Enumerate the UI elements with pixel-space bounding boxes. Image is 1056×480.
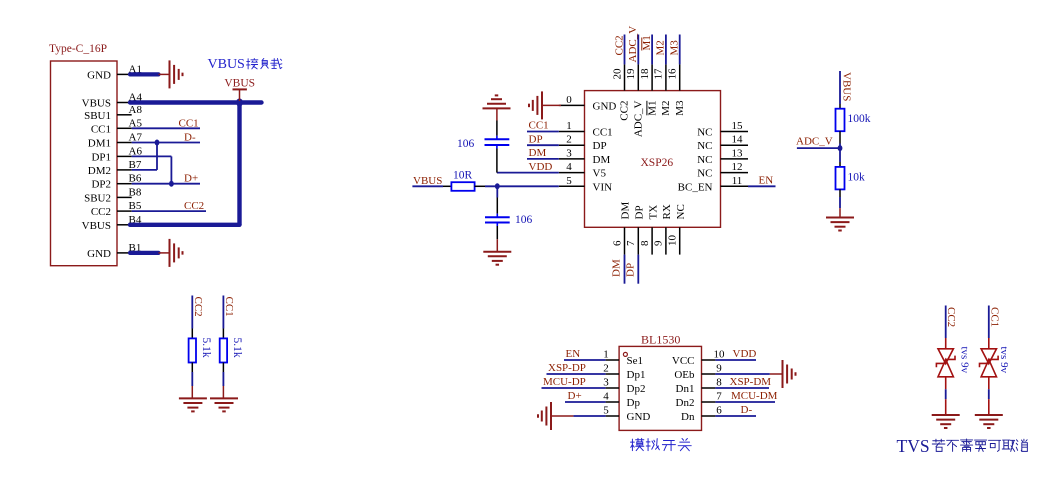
ground lead U2 pin9 <box>770 373 782 375</box>
TVS lead bottom <box>945 377 947 390</box>
svg-text:M2: M2 <box>655 40 667 55</box>
pin A8 SBU1 of J1 <box>117 114 132 116</box>
svg-text:1: 1 <box>566 120 572 132</box>
cap lead below C1 <box>496 149 498 173</box>
svg-text:3: 3 <box>603 377 609 389</box>
pin 2 DP of U1 <box>559 144 585 146</box>
ground at A1 <box>169 60 171 88</box>
svg-text:M3: M3 <box>669 40 681 56</box>
svg-text:XSP26: XSP26 <box>641 157 674 169</box>
ground above C1 <box>483 107 511 109</box>
svg-text:NC: NC <box>697 140 712 152</box>
wire EN to U2 pin1 <box>564 359 606 361</box>
pin 7 DP of U1 (bottom) <box>637 227 639 254</box>
svg-text:BC_EN: BC_EN <box>678 181 713 193</box>
ground lead TVS <box>945 399 947 415</box>
svg-text:GND: GND <box>593 100 617 112</box>
svg-text:VBUS: VBUS <box>413 175 442 187</box>
svg-text:DP: DP <box>593 140 607 152</box>
wire DM below U1 <box>624 255 626 284</box>
pin1 indicator dot U2 <box>623 352 627 356</box>
cap C2 blue stub below <box>496 223 498 227</box>
pin A4 VBUS of J1 <box>117 102 132 104</box>
TVS lead top <box>945 338 947 349</box>
wire DM to U1 <box>527 158 559 160</box>
pin 3 Dp2 of U2 <box>606 387 620 389</box>
pin 2 Dp1 of U2 <box>606 373 620 375</box>
wire VBUS to pin B4 (thick) <box>130 223 240 227</box>
svg-text:7: 7 <box>625 240 637 246</box>
svg-text:CC1: CC1 <box>988 307 1000 327</box>
svg-text:OEb: OEb <box>674 369 695 381</box>
overline for net label M1 <box>641 38 643 51</box>
svg-text:19: 19 <box>625 68 637 80</box>
svg-text:M1: M1 <box>646 101 658 116</box>
svg-text:MCU-DM: MCU-DM <box>731 390 778 402</box>
ground below TVS CC1 <box>975 414 1003 416</box>
cap C2 blue stub above <box>496 214 498 218</box>
svg-text:M3: M3 <box>674 100 686 116</box>
wire VDD from U2 pin10 <box>715 359 756 361</box>
svg-text:106: 106 <box>515 214 533 226</box>
pin 0 GND of U1 <box>559 104 585 106</box>
pin A5 CC1 of J1 <box>117 127 132 129</box>
svg-text:5: 5 <box>603 405 609 417</box>
resistor lead bottom 10k <box>839 189 841 197</box>
svg-text:M2: M2 <box>660 101 672 116</box>
wire to ground (divider) <box>839 197 841 208</box>
svg-text:CC1: CC1 <box>91 123 111 135</box>
svg-text:TVS: TVS <box>897 436 930 456</box>
wire CC1 TVS <box>988 306 990 339</box>
ground below 10k <box>826 217 854 219</box>
wire D- from pin A7 <box>132 142 200 144</box>
svg-text:10R: 10R <box>453 169 473 181</box>
ground at U2 pin9 <box>782 360 784 388</box>
svg-text:VIN: VIN <box>593 181 613 193</box>
ground lead pin0 <box>543 104 561 106</box>
svg-text:CC2: CC2 <box>613 35 625 55</box>
ground under CC1 resistor <box>210 397 238 399</box>
wire from U2 pin9 <box>715 373 769 375</box>
resistor 5.1k lead top <box>191 329 193 339</box>
svg-text:Se1: Se1 <box>627 355 644 367</box>
junction on D- <box>155 140 160 146</box>
ground lead above C1 <box>496 108 498 120</box>
svg-text:CC1: CC1 <box>179 117 199 129</box>
svg-text:12: 12 <box>732 161 743 173</box>
svg-text:NC: NC <box>697 154 712 166</box>
TVS diode (CC1) tvs 9v <box>981 349 996 364</box>
svg-text:NC: NC <box>697 168 712 180</box>
wire D+ to U2 pin4 <box>565 401 606 403</box>
svg-text:D-: D- <box>184 131 196 143</box>
pin 14 NC of U1 <box>721 144 749 146</box>
svg-text:M1: M1 <box>641 35 653 50</box>
wire TVS to ground <box>988 389 990 399</box>
resistor lead top 100k <box>839 104 841 109</box>
svg-text:106: 106 <box>457 138 475 150</box>
pin 9 RX of U1 (bottom) <box>665 227 667 254</box>
pin 15 NC of U1 <box>721 131 749 133</box>
pin B8 SBU2 of J1 <box>117 196 132 198</box>
pin 12 NC of U1 <box>721 172 749 174</box>
svg-text:DP: DP <box>634 205 646 219</box>
wire DM1-DM2 vertical <box>156 143 158 170</box>
wire from pin B7 <box>132 169 157 171</box>
ground below C2 <box>483 251 511 253</box>
pin A7 DM1 of J1 <box>117 142 132 144</box>
svg-text:DP1: DP1 <box>91 151 111 163</box>
ground under CC2 resistor <box>179 397 207 399</box>
ground lead TVS <box>988 399 990 415</box>
capacitor C2 106 plates <box>485 216 510 218</box>
pin 10 VCC of U2 <box>702 359 716 361</box>
pin 13 NC of U1 <box>721 158 749 160</box>
svg-text:DM: DM <box>529 147 547 159</box>
cap lead above C1 <box>496 121 498 136</box>
pin A1 GND of J1 <box>117 73 132 75</box>
capacitor C1 106 plates <box>485 144 510 146</box>
wire to ground <box>191 372 193 386</box>
svg-text:Dp1: Dp1 <box>627 369 646 381</box>
wire CC1 to resistor <box>222 296 224 329</box>
svg-text:3: 3 <box>566 147 572 159</box>
svg-text:10: 10 <box>667 235 679 247</box>
ground lead <box>222 386 224 398</box>
svg-text:XSP-DM: XSP-DM <box>730 376 772 388</box>
pin B1 GND of J1 <box>117 252 132 254</box>
IC U2 BL1530 body <box>619 346 701 430</box>
svg-text:6: 6 <box>716 405 722 417</box>
pin 16 M3 of U1 (top) <box>679 64 681 90</box>
wire to ground <box>222 372 224 386</box>
resistor lead top 10k <box>839 162 841 167</box>
ground below TVS CC2 <box>932 414 960 416</box>
resistor lead left 10R <box>443 185 451 187</box>
junction VBUS <box>236 99 243 107</box>
junction VIN/C2 <box>495 183 500 189</box>
connector J1 Type-C_16P body <box>51 61 118 266</box>
svg-text:10k: 10k <box>848 172 866 184</box>
wire XSP-DM <box>715 387 769 389</box>
pin 8 Dn1 of U2 <box>702 387 716 389</box>
svg-text:DM: DM <box>611 259 623 277</box>
pin 19 ADC_V of U1 (top) <box>637 64 639 90</box>
resistor 5.1k lead bottom <box>191 363 193 373</box>
wire VBUS vertical (thick) <box>237 103 241 225</box>
ground lead A1 <box>159 73 170 75</box>
svg-text:CC2: CC2 <box>192 297 204 317</box>
wire CC2 to resistor <box>191 296 193 329</box>
resistor 5.1k (CC2) <box>189 338 196 362</box>
wire ADC_V above U1 <box>637 35 639 65</box>
IC U1 XSP26 body <box>585 91 721 228</box>
svg-text:NC: NC <box>675 204 687 219</box>
svg-text:6: 6 <box>611 240 623 246</box>
pin 20 CC2 of U1 (top) <box>624 64 626 90</box>
wire VBUS divider <box>839 71 841 104</box>
svg-text:DM: DM <box>593 154 611 166</box>
svg-text:ADC_V: ADC_V <box>633 100 645 137</box>
svg-text:Dp2: Dp2 <box>627 383 646 395</box>
wire GND net from pin A1 <box>130 72 159 76</box>
svg-text:Type-C_16P: Type-C_16P <box>49 43 107 55</box>
wire DP below U1 <box>637 255 639 284</box>
svg-text:EN: EN <box>759 175 774 187</box>
svg-text:14: 14 <box>732 134 744 146</box>
wire CC2 TVS <box>945 306 947 339</box>
svg-text:VDD: VDD <box>733 348 757 360</box>
pin 8 TX of U1 (bottom) <box>651 227 653 254</box>
pin 1 CC1 of U1 <box>559 131 585 133</box>
svg-text:TX: TX <box>647 205 659 220</box>
svg-text:VBUS: VBUS <box>208 57 245 72</box>
junction ADC_V <box>838 145 843 151</box>
svg-text:DP2: DP2 <box>91 179 111 191</box>
wire GND net from pin B1 <box>130 251 159 255</box>
svg-text:Dn2: Dn2 <box>676 397 695 409</box>
svg-text:9: 9 <box>653 240 665 246</box>
svg-text:V5: V5 <box>593 168 607 180</box>
ground lead (divider) <box>839 208 841 217</box>
overline for inside pin name M1 <box>646 101 648 116</box>
svg-text:20: 20 <box>611 68 623 80</box>
ground at U1 pin0 <box>541 91 543 119</box>
svg-text:4: 4 <box>566 161 572 173</box>
wire GND U2 pin5 <box>573 415 605 417</box>
wire EN from U1 pin11 <box>748 185 776 187</box>
svg-text:DP: DP <box>529 133 543 145</box>
svg-text:RX: RX <box>661 204 673 219</box>
svg-text:CC1: CC1 <box>593 127 613 139</box>
svg-text:8: 8 <box>639 240 651 246</box>
wire CC2 above U1 <box>624 35 626 65</box>
svg-text:17: 17 <box>653 68 665 80</box>
svg-text:ADC_V: ADC_V <box>796 136 833 148</box>
ground lead B1 <box>159 252 170 254</box>
svg-text:A8: A8 <box>129 104 143 116</box>
wire to ADC_V node <box>839 144 841 149</box>
wire VIN to U1 pin5 <box>485 185 559 187</box>
svg-text:DP: DP <box>625 263 637 277</box>
resistor 100k <box>836 109 845 132</box>
svg-text:16: 16 <box>667 68 679 80</box>
svg-text:VBUS: VBUS <box>224 78 255 90</box>
pin B7 DM2 of J1 <box>117 169 132 171</box>
svg-text:5.1k: 5.1k <box>200 338 212 358</box>
svg-text:CC2: CC2 <box>945 307 957 327</box>
resistor 5.1k (CC1) <box>220 338 227 362</box>
svg-text:Dn: Dn <box>681 411 695 423</box>
svg-text:ADC_V: ADC_V <box>627 26 639 63</box>
svg-text:DM1: DM1 <box>88 138 111 150</box>
power port VBUS stem <box>239 89 241 101</box>
svg-text:0: 0 <box>566 94 572 106</box>
svg-text:SBU2: SBU2 <box>84 192 111 204</box>
resistor R? 10R <box>451 182 474 191</box>
svg-text:tvs 9v: tvs 9v <box>959 347 971 374</box>
svg-text:CC1: CC1 <box>223 297 235 317</box>
svg-text:18: 18 <box>639 68 651 80</box>
svg-text:5: 5 <box>566 175 572 187</box>
pin 4 V5 of U1 <box>559 172 585 174</box>
wire M3 above U1 <box>679 35 681 65</box>
wire VBUS from pin A4 (thick) <box>130 100 262 104</box>
pin 6 Dn of U2 <box>702 415 716 417</box>
svg-text:8: 8 <box>716 377 722 389</box>
svg-text:4: 4 <box>603 391 609 403</box>
svg-text:GND: GND <box>627 411 651 423</box>
svg-text:B8: B8 <box>129 186 142 198</box>
pin 17 M2 of U1 (top) <box>665 64 667 90</box>
wire D- from U2 pin6 <box>715 415 756 417</box>
svg-text:CC2: CC2 <box>184 200 204 212</box>
cap C1 blue stub above <box>496 136 498 140</box>
wire VDD from pin4 <box>497 172 559 174</box>
svg-text:VDD: VDD <box>529 161 553 173</box>
wire XSP-DP <box>547 373 606 375</box>
svg-text:Dp: Dp <box>627 397 641 409</box>
caption 模拟开关 <box>631 438 644 450</box>
wire CC2 from pin B5 <box>132 210 206 212</box>
pin 1 Se1 of U2 <box>606 359 620 361</box>
cap lead below C2 <box>496 226 498 239</box>
resistor lead right 10R <box>475 185 485 187</box>
svg-text:NC: NC <box>697 127 712 139</box>
wire DP1-DP2 vertical <box>170 156 172 183</box>
junction on D+ <box>169 181 174 187</box>
wire MCU-DP <box>542 387 606 389</box>
pin B6 DP2 of J1 <box>117 183 132 185</box>
wire MCU-DM <box>715 401 775 403</box>
svg-text:D+: D+ <box>184 173 198 185</box>
wire from pin A6 <box>132 155 172 157</box>
wire DP to U1 <box>527 144 559 146</box>
resistor 5.1k lead bottom <box>222 363 224 373</box>
ground lead <box>191 386 193 398</box>
wire TVS to ground <box>945 389 947 399</box>
cap C1 blue stub below <box>496 145 498 149</box>
resistor 5.1k lead top <box>222 329 224 339</box>
pin B4 VBUS of J1 <box>117 224 132 226</box>
svg-text:VBUS: VBUS <box>82 220 111 232</box>
svg-text:2: 2 <box>603 363 609 375</box>
svg-text:D-: D- <box>741 404 753 416</box>
wire VBUS under label <box>412 185 443 187</box>
ground at B1 <box>169 239 171 267</box>
svg-text:tvs 9v: tvs 9v <box>998 347 1010 374</box>
wire below junction <box>496 186 498 197</box>
ground lead below C2 <box>496 239 498 252</box>
pin 18 M1 of U1 (top) <box>651 64 653 90</box>
ground at U2 pin5 <box>550 402 552 430</box>
wire CC1 to U1 <box>527 131 559 133</box>
svg-text:VCC: VCC <box>672 355 695 367</box>
pin 4 Dp of U2 <box>606 401 620 403</box>
svg-text:VBUS: VBUS <box>841 72 853 101</box>
resistor lead bottom 100k <box>839 131 841 143</box>
svg-text:2: 2 <box>566 134 572 146</box>
svg-text:10: 10 <box>714 349 726 361</box>
svg-text:DM: DM <box>620 202 632 220</box>
pin 11 BC_EN of U1 <box>721 185 749 187</box>
wire D+ from pin B6 <box>132 183 200 185</box>
svg-text:9: 9 <box>716 363 722 375</box>
svg-text:100k: 100k <box>848 113 871 125</box>
wire below ADC_V node <box>839 148 841 162</box>
pin 10 NC of U1 (bottom) <box>679 227 681 254</box>
resistor 10k <box>836 167 845 190</box>
pin B5 CC2 of J1 <box>117 210 132 212</box>
svg-text:CC2: CC2 <box>619 101 631 121</box>
svg-text:D+: D+ <box>568 390 582 402</box>
pin 5 VIN of U1 <box>559 185 585 187</box>
TVS diode (CC2) tvs 9v <box>938 349 953 364</box>
pin 3 DM of U1 <box>559 158 585 160</box>
pin 9 OEb of U2 <box>702 373 716 375</box>
pin A6 DP1 of J1 <box>117 155 132 157</box>
svg-text:5.1k: 5.1k <box>231 338 243 358</box>
wire M1 above U1 <box>651 35 653 65</box>
wire M2 above U1 <box>665 35 667 65</box>
svg-text:13: 13 <box>732 147 744 159</box>
svg-text:SBU1: SBU1 <box>84 110 111 122</box>
svg-text:Dn1: Dn1 <box>676 383 695 395</box>
pin 7 Dn2 of U2 <box>702 401 716 403</box>
svg-text:11: 11 <box>732 175 743 187</box>
svg-text:DM2: DM2 <box>88 165 111 177</box>
svg-text:EN: EN <box>566 348 581 360</box>
TVS lead top <box>988 338 990 349</box>
wire ADC_V <box>797 147 840 149</box>
svg-text:XSP-DP: XSP-DP <box>548 362 586 374</box>
svg-text:15: 15 <box>732 120 744 132</box>
svg-text:GND: GND <box>87 248 111 260</box>
pin 6 DM of U1 (bottom) <box>624 227 626 254</box>
svg-text:7: 7 <box>716 391 722 403</box>
svg-text:VBUS: VBUS <box>82 98 111 110</box>
svg-text:CC1: CC1 <box>529 120 549 132</box>
svg-text:MCU-DP: MCU-DP <box>543 376 586 388</box>
power port VBUS bar <box>233 88 247 90</box>
pin 5 GND of U2 <box>606 415 620 417</box>
TVS lead bottom <box>988 377 990 390</box>
cap lead above C2 <box>496 198 498 214</box>
svg-text:BL1530: BL1530 <box>641 333 680 347</box>
wire CC1 from pin A5 <box>132 127 200 129</box>
svg-text:1: 1 <box>603 349 609 361</box>
svg-text:GND: GND <box>87 69 111 81</box>
svg-text:CC2: CC2 <box>91 206 111 218</box>
ground lead U2 pin5 <box>552 415 573 417</box>
